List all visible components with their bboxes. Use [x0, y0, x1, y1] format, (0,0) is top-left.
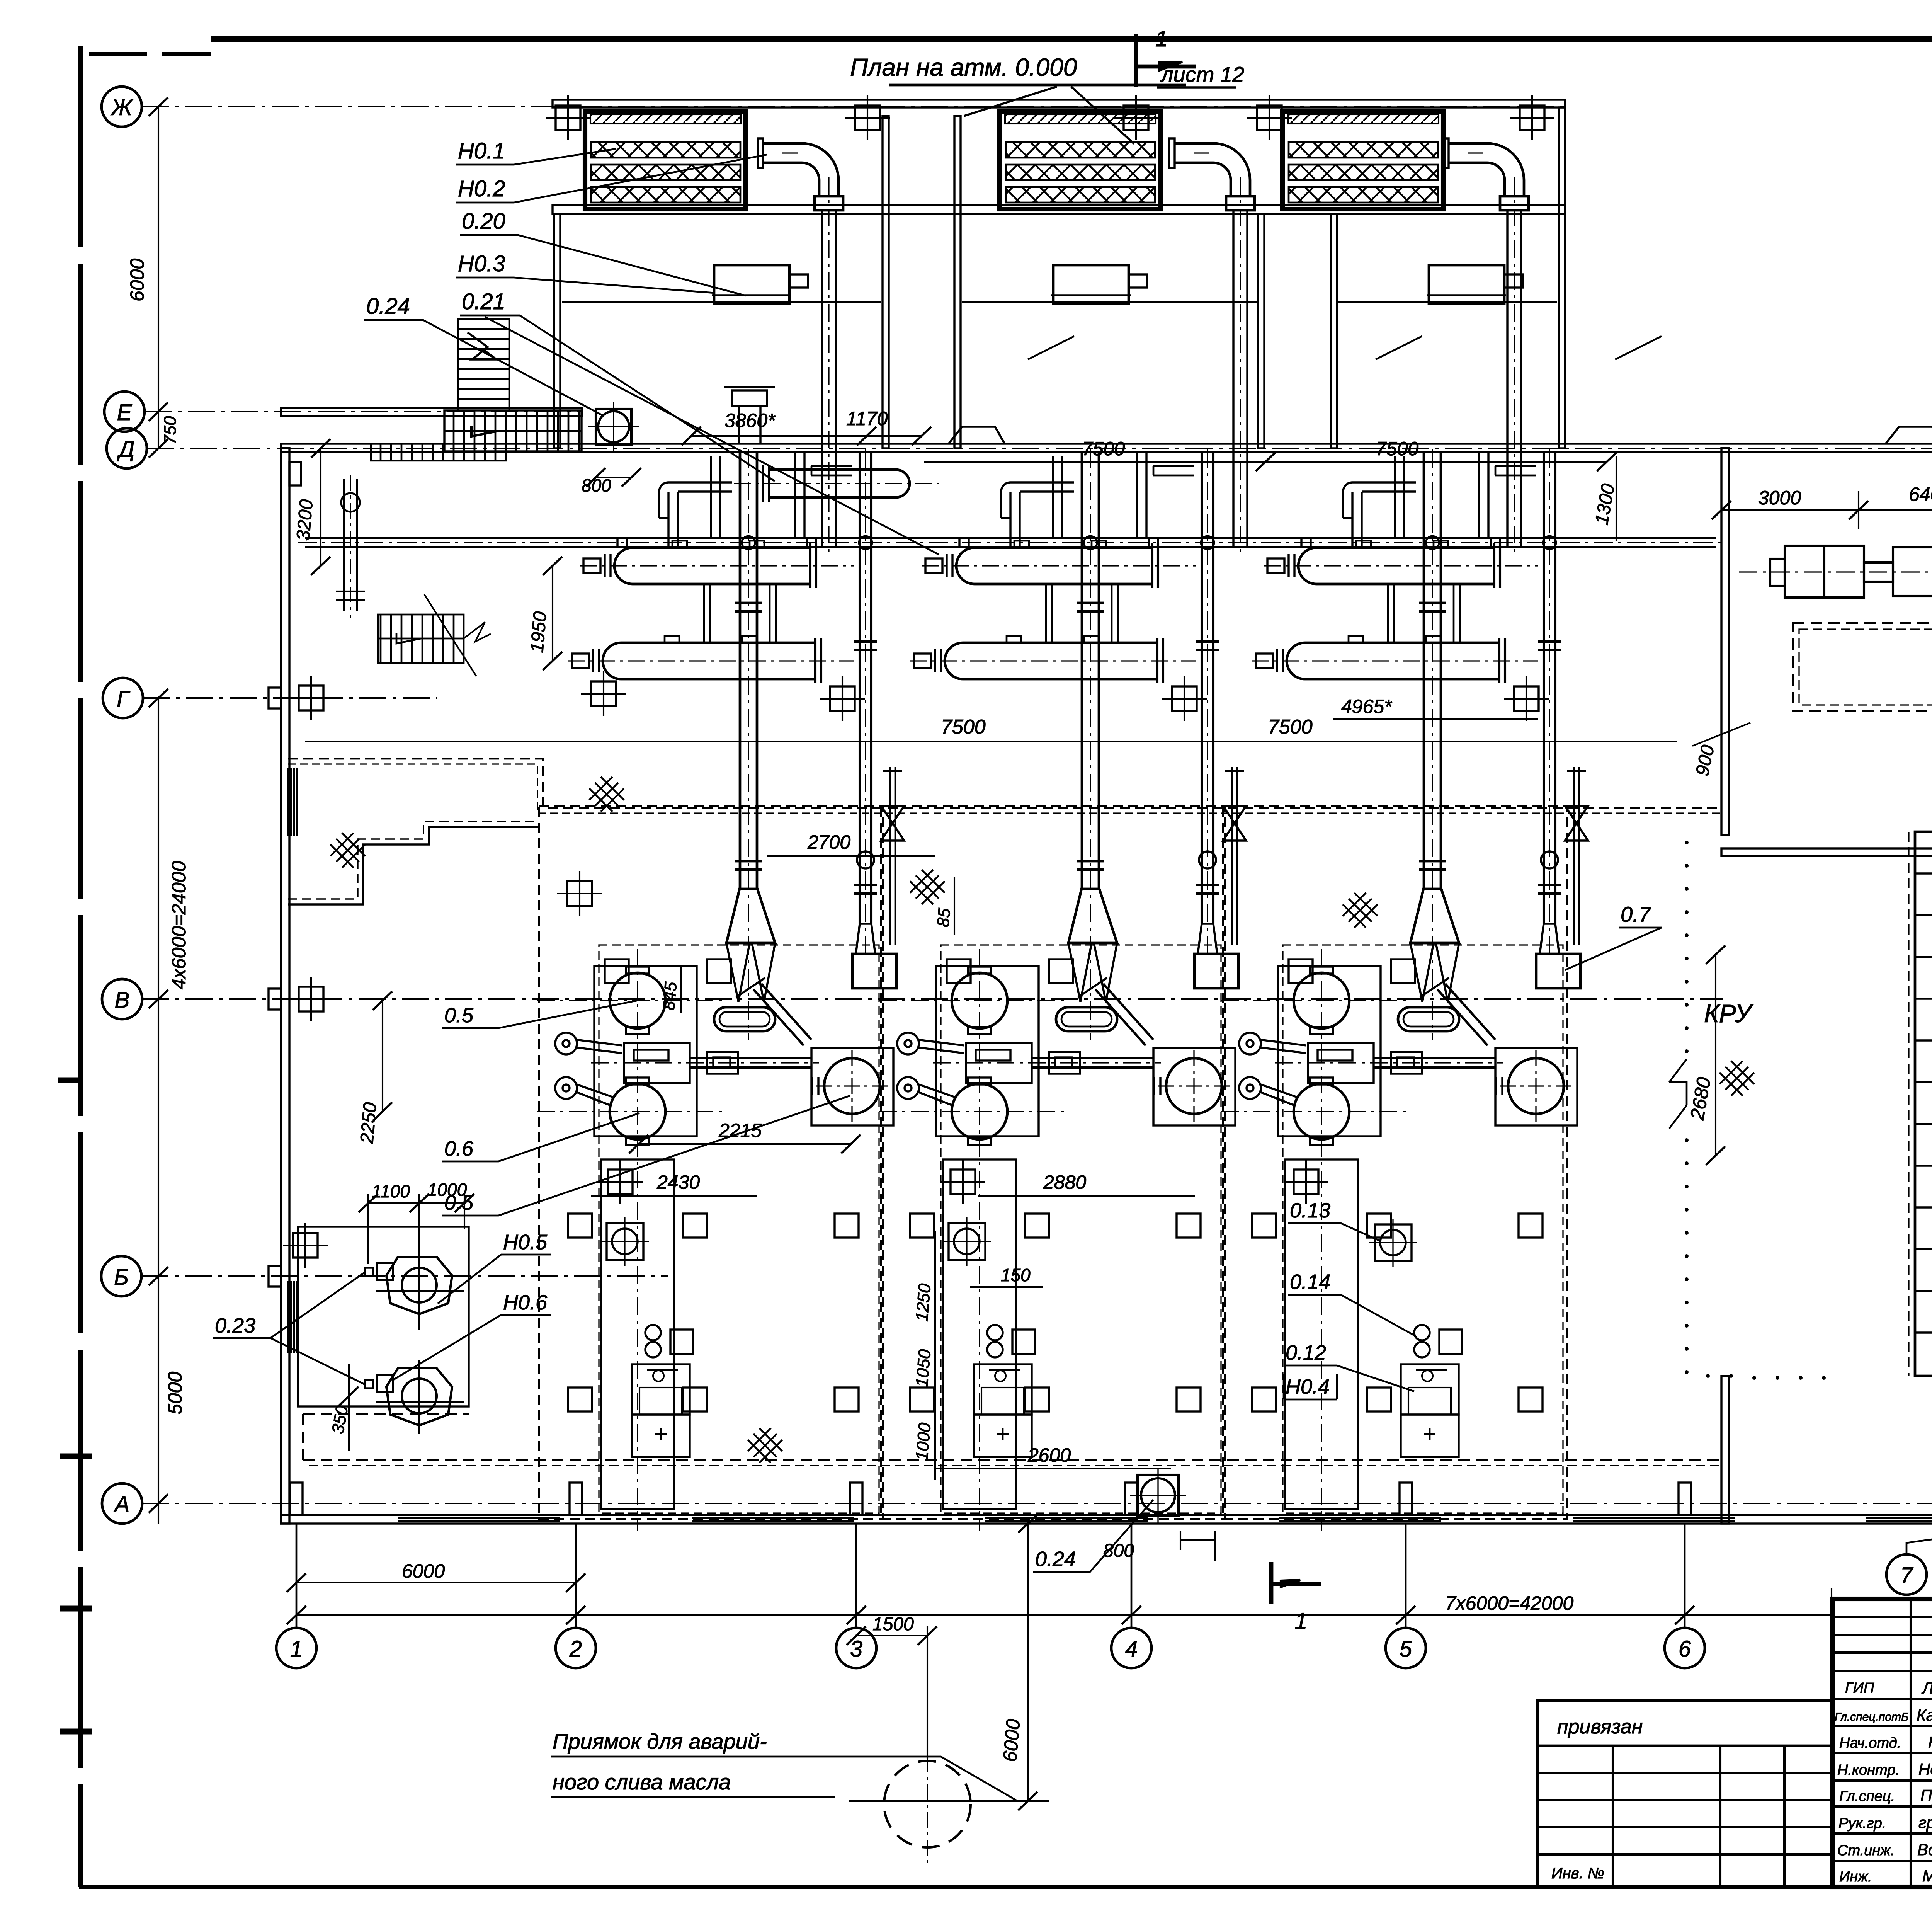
- svg-text:План на атм. 0.000: План на атм. 0.000: [850, 53, 1077, 81]
- svg-text:Калупахин: Калупахин: [1917, 1706, 1932, 1724]
- auxiliary pump unit 2: [943, 1217, 1035, 1457]
- dimension 7500 mid: [305, 716, 1677, 741]
- 350 dimension: [328, 1364, 359, 1451]
- svg-text:1050: 1050: [912, 1348, 934, 1388]
- column stubs on left wall: [269, 462, 301, 1287]
- svg-text:Н0.2: Н0.2: [458, 176, 505, 201]
- intake elbow 1: [758, 138, 843, 552]
- svg-text:5: 5: [1400, 1636, 1412, 1662]
- intake elbow 3: [1443, 138, 1529, 552]
- svg-text:5000: 5000: [164, 1372, 186, 1415]
- oil pump Н0.6: [376, 1360, 464, 1434]
- silencer 3: [1427, 265, 1523, 304]
- svg-text:0.21: 0.21: [462, 289, 505, 314]
- dimension 2680: [1686, 945, 1725, 1165]
- dimension 4965*: [1333, 696, 1538, 719]
- svg-text:7500: 7500: [941, 716, 986, 738]
- dimension 845: [659, 966, 681, 1013]
- svg-text:2: 2: [569, 1636, 582, 1662]
- svg-text:Коган: Коган: [1928, 1733, 1932, 1751]
- svg-text:7: 7: [1900, 1563, 1914, 1588]
- axis 5: [1386, 1628, 1426, 1668]
- svg-text:2880: 2880: [1043, 1171, 1086, 1193]
- walkway dashed strip: [303, 1414, 1721, 1466]
- binding table texts: [1551, 1716, 1643, 1882]
- svg-text:0.23: 0.23: [215, 1314, 255, 1337]
- svg-text:845: 845: [659, 981, 680, 1011]
- dimension 2430: [591, 1171, 757, 1196]
- dimension 1170: [846, 408, 931, 445]
- label 0.5 upper: [442, 1001, 637, 1028]
- svg-text:А: А: [114, 1492, 130, 1517]
- label 0.21: [460, 289, 939, 555]
- vertical dimension 6000 to pit: [999, 1514, 1037, 1810]
- bottom dimension 6000 axes 1-2: [287, 1560, 585, 1592]
- svg-text:1: 1: [1294, 1608, 1307, 1634]
- svg-text:Н0.5: Н0.5: [503, 1231, 548, 1254]
- label 0.14: [1288, 1270, 1414, 1335]
- drain pump square bottom: [1130, 1469, 1186, 1523]
- svg-text:2600: 2600: [1027, 1444, 1071, 1466]
- КРУ boundary break symbol: [1669, 1059, 1687, 1129]
- svg-text:7500: 7500: [1268, 716, 1313, 738]
- left outer wall: [281, 448, 289, 1524]
- svg-text:6000: 6000: [126, 259, 148, 301]
- label 0.12: [1284, 1341, 1414, 1391]
- svg-text:1500: 1500: [872, 1614, 914, 1634]
- svg-text:4х6000=24000: 4х6000=24000: [168, 861, 190, 989]
- column stubs on bottom wall: [290, 1483, 1932, 1515]
- axis 1: [276, 1628, 316, 1668]
- ventilation chamber 2: [1000, 111, 1160, 209]
- wall row Ж top: [553, 100, 1565, 107]
- title block names column: [1917, 1679, 1932, 1885]
- compressor unit 2: [879, 449, 1246, 1531]
- dimension 1500: [847, 1614, 937, 1759]
- wall stub pipe: [724, 387, 775, 444]
- compressor unit 1: [537, 449, 904, 1531]
- svg-text:0.13: 0.13: [1290, 1199, 1330, 1222]
- axis column circles bottom: [276, 1554, 1932, 1668]
- svg-text:2250: 2250: [357, 1102, 381, 1145]
- svg-text:Гл.спец.: Гл.спец.: [1839, 1788, 1895, 1805]
- chamber bottom wall: [553, 205, 1565, 214]
- receiver vessel 0.21: [734, 465, 939, 502]
- drain pump square top: [582, 402, 641, 495]
- svg-text:0.6: 0.6: [444, 1137, 474, 1160]
- label 0.24 bottom: [1033, 1500, 1153, 1572]
- svg-text:лист 12: лист 12: [1160, 62, 1244, 87]
- axis column leaders: [296, 1524, 1932, 1628]
- section mark 1 bottom: [1271, 1562, 1321, 1634]
- label Н0.5: [438, 1231, 551, 1304]
- oil area dimension 1100 1000: [359, 1180, 474, 1264]
- binding table: [1538, 1700, 1833, 1887]
- staircase mid-left: [378, 594, 491, 676]
- label 0.6: [442, 1113, 639, 1161]
- axis Б: [101, 1256, 141, 1296]
- column marks row Ж: [546, 95, 590, 140]
- title block frame: [1833, 1599, 1932, 1887]
- dimension 2215: [629, 1120, 861, 1153]
- dimension 2880: [978, 1171, 1195, 1196]
- svg-text:4: 4: [1125, 1636, 1138, 1662]
- label Н0.3: [456, 251, 715, 293]
- svg-text:Инв. №: Инв. №: [1551, 1865, 1604, 1882]
- svg-text:ного слива масла: ного слива масла: [553, 1770, 731, 1794]
- dimension 7500 row: [924, 438, 1616, 471]
- svg-text:1250: 1250: [912, 1283, 934, 1322]
- oil drain pit note: [551, 1729, 1016, 1800]
- svg-text:4965*: 4965*: [1341, 696, 1392, 717]
- axis row center-lines: [141, 107, 1932, 1503]
- window hatch left wall upper: [288, 768, 297, 836]
- header pipe along hall: [298, 538, 1721, 547]
- hall interior step pit edge: [288, 822, 539, 904]
- svg-text:Г: Г: [117, 686, 131, 712]
- axis 6: [1665, 1628, 1705, 1668]
- vertical dims 1250 1050 1000: [912, 1231, 935, 1480]
- foundation pit dashed boundary: [288, 759, 1721, 808]
- dimension 2250: [357, 991, 392, 1145]
- axis row circles left: [101, 87, 147, 1524]
- svg-text:1: 1: [290, 1636, 303, 1662]
- ventilation chamber 1: [585, 111, 746, 209]
- svg-text:Нач.отд.: Нач.отд.: [1839, 1735, 1901, 1751]
- label 0.7: [1565, 902, 1662, 970]
- svg-text:Н0.1: Н0.1: [458, 138, 505, 163]
- shelf lines in annex: [562, 302, 1662, 359]
- dimension 3860*: [682, 410, 876, 445]
- svg-text:привязан: привязан: [1557, 1716, 1643, 1738]
- svg-text:0.20: 0.20: [462, 209, 505, 234]
- svg-text:800: 800: [1103, 1541, 1134, 1561]
- svg-text:6400: 6400: [1909, 484, 1932, 505]
- window hatch left wall: [288, 1281, 297, 1353]
- svg-text:0.5: 0.5: [444, 1004, 474, 1027]
- svg-text:7500: 7500: [1376, 438, 1418, 460]
- svg-text:григорьян: григорьян: [1918, 1813, 1932, 1832]
- transformer block 1: [1770, 546, 1864, 598]
- svg-text:3860*: 3860*: [724, 410, 776, 431]
- svg-text:3200: 3200: [293, 499, 317, 541]
- staircase top-left lower flight: [444, 410, 582, 451]
- dimension 2700: [767, 831, 935, 856]
- svg-text:Инж.: Инж.: [1839, 1869, 1872, 1885]
- svg-text:Воеводика: Воеводика: [1917, 1840, 1932, 1859]
- svg-text:150: 150: [1001, 1265, 1031, 1285]
- КТП bottom wall: [1721, 848, 1932, 856]
- svg-text:КРУ: КРУ: [1704, 999, 1753, 1028]
- ventilation chamber 3: [1282, 111, 1443, 209]
- svg-text:7х6000=42000: 7х6000=42000: [1445, 1592, 1573, 1614]
- door leaf symbols on wall Д: [949, 427, 1005, 444]
- label Н0.2: [456, 155, 767, 203]
- svg-text:2430: 2430: [656, 1171, 700, 1193]
- axis А: [102, 1483, 142, 1524]
- svg-text:Малыга: Малыга: [1922, 1867, 1932, 1885]
- svg-text:Гл.спец.потБ: Гл.спец.потБ: [1835, 1711, 1909, 1723]
- svg-text:3000: 3000: [1758, 487, 1801, 509]
- oil pump motor Н0.5: [365, 1263, 393, 1280]
- svg-text:Е: Е: [117, 400, 133, 425]
- 900 dimension: [1692, 711, 1750, 796]
- auxiliary pump unit 3: [1369, 1219, 1462, 1457]
- svg-text:0.14: 0.14: [1290, 1270, 1330, 1294]
- auxiliary pump unit 1: [601, 1217, 693, 1457]
- svg-text:Ж: Ж: [110, 95, 133, 120]
- window band on wall Д left annex: [371, 444, 506, 461]
- dimension 3200: [293, 439, 330, 575]
- svg-text:0.24: 0.24: [366, 294, 410, 319]
- axis Д: [107, 428, 147, 468]
- КРУ switchgear cabinets: [1909, 832, 1932, 1376]
- label Н0.6: [393, 1291, 551, 1380]
- КРУ front dotted boundary: [1685, 841, 1826, 1380]
- svg-text:В: В: [115, 987, 130, 1013]
- left riser pipe: [336, 475, 365, 618]
- title block roles column: [1835, 1680, 1909, 1885]
- column crosses left wall: [289, 676, 333, 720]
- section mark 1 / лист 12 top: [1136, 26, 1244, 87]
- transformer row centerline: [1739, 571, 1932, 572]
- svg-text:Новицкая: Новицкая: [1918, 1760, 1932, 1778]
- КТП dashed cable duct: [1793, 623, 1932, 711]
- svg-text:1170: 1170: [846, 408, 888, 429]
- svg-text:ГИП: ГИП: [1845, 1680, 1874, 1696]
- oil pump motor Н0.6: [365, 1375, 393, 1392]
- svg-text:Леонов: Леонов: [1921, 1679, 1932, 1697]
- staircase top-left upper flight: [458, 319, 509, 410]
- svg-text:Н0.6: Н0.6: [503, 1291, 548, 1314]
- svg-text:0.5: 0.5: [444, 1191, 474, 1214]
- svg-text:750: 750: [161, 416, 180, 444]
- svg-text:6000: 6000: [402, 1560, 445, 1582]
- axis Е: [104, 392, 145, 432]
- label 0.20: [460, 209, 746, 296]
- bottom outer wall: [281, 1515, 1932, 1524]
- svg-text:0.7: 0.7: [1621, 902, 1651, 926]
- dimension 85: [934, 877, 954, 935]
- svg-text:Н0.3: Н0.3: [458, 251, 505, 276]
- axis 7: [1886, 1554, 1927, 1595]
- svg-text:0.24: 0.24: [1035, 1548, 1076, 1571]
- svg-text:6: 6: [1679, 1636, 1691, 1662]
- label Н0.4: [1284, 1374, 1337, 1399]
- svg-text:Н0.4: Н0.4: [1286, 1375, 1330, 1398]
- axis Г: [103, 678, 143, 718]
- svg-text:2215: 2215: [718, 1120, 762, 1141]
- label 0.5 lower: [442, 1096, 850, 1216]
- intake elbow 2: [1169, 138, 1255, 552]
- svg-text:0.12: 0.12: [1286, 1341, 1326, 1364]
- 150 dimension: [970, 1265, 1043, 1287]
- oil pump room outline: [298, 1227, 469, 1406]
- column mark at Б wall: [283, 1223, 328, 1268]
- svg-text:2700: 2700: [807, 831, 850, 853]
- wall row Д main: [281, 427, 1932, 452]
- svg-text:1950: 1950: [527, 611, 551, 654]
- portal shaft walls: [554, 107, 1565, 448]
- svg-text:1: 1: [1155, 26, 1168, 51]
- svg-text:Рук.гр.: Рук.гр.: [1838, 1815, 1886, 1832]
- svg-text:1000: 1000: [912, 1422, 934, 1461]
- label 0.13: [1288, 1199, 1379, 1241]
- bottom dimension 7x6000=42000: [287, 1588, 1832, 1624]
- svg-text:Б: Б: [114, 1265, 129, 1290]
- svg-text:85: 85: [934, 907, 954, 928]
- svg-text:Д: Д: [117, 437, 135, 462]
- svg-text:Н.контр.: Н.контр.: [1837, 1762, 1900, 1778]
- label Н0.1: [456, 138, 616, 165]
- axis 2: [556, 1628, 596, 1668]
- axis Ж: [102, 87, 142, 127]
- transformer block 2: [1864, 547, 1932, 596]
- svg-text:6000: 6000: [999, 1718, 1024, 1763]
- svg-text:Ст.инж.: Ст.инж.: [1837, 1842, 1895, 1859]
- title block inner lines: [1833, 1599, 1932, 1887]
- silencer 1: [712, 265, 808, 304]
- dimension 1950: [527, 557, 562, 670]
- left vertical dimension chain: [126, 97, 190, 1524]
- oil drain pit circle: [849, 1757, 1049, 1863]
- drawing title: [850, 53, 1186, 144]
- svg-text:Преснов: Преснов: [1920, 1786, 1932, 1805]
- dimension 1300: [1592, 456, 1619, 541]
- svg-text:7500: 7500: [1082, 438, 1125, 460]
- axis 4: [1111, 1628, 1151, 1668]
- axis В: [102, 979, 142, 1019]
- dimension 800 bottom: [1103, 1531, 1215, 1561]
- compressor unit 3: [1221, 449, 1588, 1531]
- axis 3: [836, 1628, 876, 1668]
- svg-text:Приямок для аварий-: Приямок для аварий-: [553, 1729, 767, 1754]
- label 0.23: [213, 1272, 365, 1384]
- svg-text:1100: 1100: [372, 1181, 410, 1201]
- column marks machine hall: [820, 676, 865, 721]
- oil pump Н0.5: [376, 1217, 464, 1330]
- wall row Е + stair top-left: [281, 319, 582, 461]
- КТП dimension 3000 / 6400: [1712, 483, 1932, 537]
- interior long wall machine hall / КТП: [1721, 448, 1729, 1524]
- silencer 2: [1051, 265, 1147, 304]
- hatch patches: [589, 777, 624, 812]
- label 0.24 top: [364, 294, 603, 415]
- dimension 2600: [935, 1444, 1171, 1469]
